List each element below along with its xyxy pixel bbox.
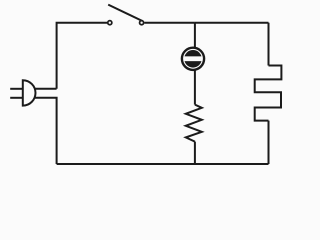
junction: top node to right corner bbox=[195, 22, 269, 24]
heating element R2 (square meander) bbox=[255, 66, 282, 121]
wire: bottom-left corner up to plug lower lead bbox=[35, 98, 57, 164]
wire: left branch up + top-left corner to switch bbox=[57, 23, 107, 89]
wire: middle branch down to lamp bbox=[194, 23, 196, 48]
wire: heating element to bottom-right corner bbox=[268, 121, 270, 164]
wire: resistor to bottom node bbox=[194, 142, 196, 164]
wire: right branch from top corner down to heating element bbox=[268, 23, 270, 66]
lamp DS1 (circle with filled disc and white band) bbox=[182, 48, 204, 70]
AC plug P1 (body + prongs) bbox=[10, 80, 35, 105]
wire: plug upper lead to left branch bbox=[35, 88, 57, 90]
wire: lamp to resistor bbox=[194, 70, 196, 105]
resistor R1 (zigzag) bbox=[186, 105, 202, 142]
switch S1 left contact bbox=[108, 21, 112, 25]
wire: switch to top node junction bbox=[145, 22, 195, 24]
switch S1 right contact bbox=[140, 21, 144, 25]
switch S1 lever (open) bbox=[108, 5, 142, 21]
wire: bottom return bus bbox=[57, 163, 269, 165]
